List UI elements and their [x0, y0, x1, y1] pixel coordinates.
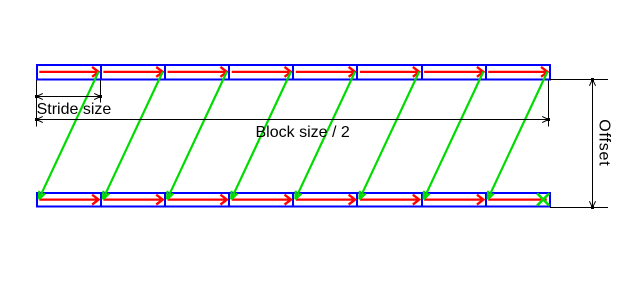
svg-text:Offset: Offset — [596, 119, 613, 166]
svg-text:Stride size: Stride size — [37, 101, 112, 118]
svg-text:Block size / 2: Block size / 2 — [256, 124, 350, 141]
